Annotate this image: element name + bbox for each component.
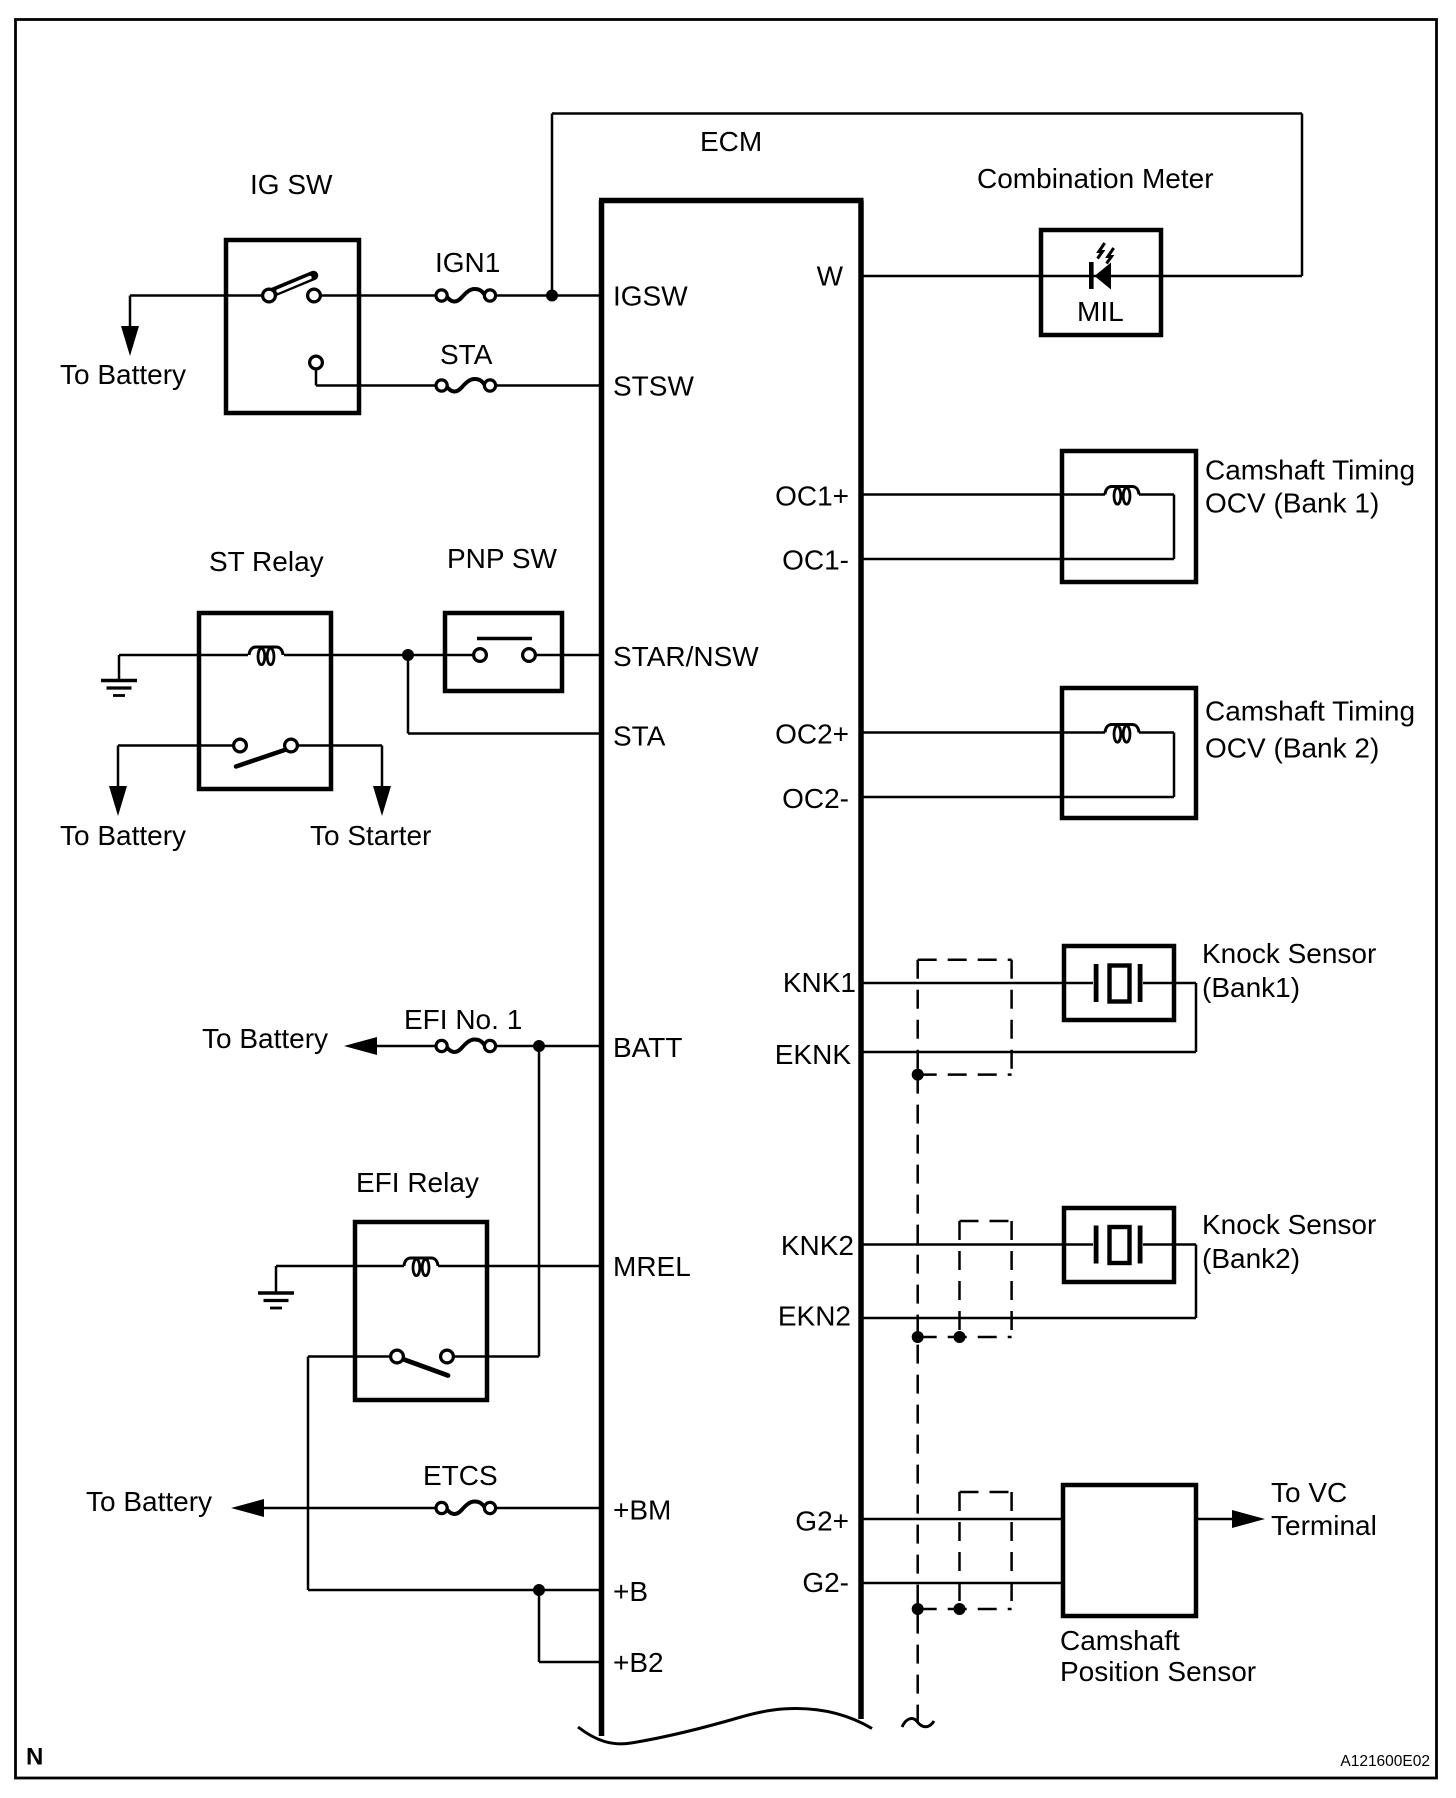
svg-text:IG SW: IG SW — [250, 169, 333, 200]
svg-text:OCV (Bank 1): OCV (Bank 1) — [1205, 488, 1379, 519]
svg-text:N: N — [26, 1744, 43, 1771]
svg-text:OC2+: OC2+ — [775, 719, 849, 750]
svg-text:STSW: STSW — [613, 371, 694, 402]
svg-text:ST Relay: ST Relay — [209, 546, 324, 577]
svg-text:EKNK: EKNK — [775, 1039, 852, 1070]
svg-text:IGSW: IGSW — [613, 281, 688, 312]
svg-text:(Bank1): (Bank1) — [1202, 972, 1300, 1003]
svg-text:Terminal: Terminal — [1271, 1510, 1377, 1541]
svg-text:EKN2: EKN2 — [778, 1301, 851, 1332]
svg-text:Camshaft: Camshaft — [1060, 1625, 1180, 1656]
svg-text:Camshaft Timing: Camshaft Timing — [1205, 455, 1415, 486]
svg-text:MIL: MIL — [1077, 296, 1124, 327]
svg-text:Knock Sensor: Knock Sensor — [1202, 938, 1376, 969]
svg-text:KNK2: KNK2 — [781, 1230, 854, 1261]
svg-text:(Bank2): (Bank2) — [1202, 1243, 1300, 1274]
svg-text:STA: STA — [440, 339, 493, 370]
svg-text:STAR/NSW: STAR/NSW — [613, 641, 759, 672]
svg-text:Camshaft Timing: Camshaft Timing — [1205, 696, 1415, 727]
svg-text:To Battery: To Battery — [60, 359, 186, 390]
svg-text:PNP SW: PNP SW — [447, 543, 558, 574]
svg-text:ETCS: ETCS — [423, 1460, 498, 1491]
svg-text:OC1-: OC1- — [782, 545, 849, 576]
svg-text:+B2: +B2 — [613, 1647, 664, 1678]
svg-text:To Battery: To Battery — [86, 1486, 212, 1517]
svg-text:OC2-: OC2- — [782, 783, 849, 814]
svg-text:EFI No. 1: EFI No. 1 — [404, 1004, 522, 1035]
svg-text:Knock Sensor: Knock Sensor — [1202, 1209, 1376, 1240]
svg-text:To Battery: To Battery — [202, 1023, 328, 1054]
svg-text:G2-: G2- — [802, 1567, 849, 1598]
svg-text:KNK1: KNK1 — [783, 967, 856, 998]
svg-text:IGN1: IGN1 — [435, 247, 500, 278]
svg-text:Combination Meter: Combination Meter — [977, 163, 1214, 194]
svg-text:To Battery: To Battery — [60, 820, 186, 851]
svg-text:MREL: MREL — [613, 1251, 691, 1282]
svg-text:STA: STA — [613, 721, 666, 752]
svg-text:+BM: +BM — [613, 1495, 671, 1526]
svg-text:To Starter: To Starter — [310, 820, 431, 851]
svg-text:+B: +B — [613, 1576, 648, 1607]
svg-text:OC1+: OC1+ — [775, 481, 849, 512]
svg-text:G2+: G2+ — [795, 1506, 849, 1537]
svg-text:Position Sensor: Position Sensor — [1060, 1656, 1256, 1687]
svg-text:A121600E02: A121600E02 — [1340, 1753, 1430, 1770]
svg-text:BATT: BATT — [613, 1032, 682, 1063]
svg-text:EFI Relay: EFI Relay — [356, 1167, 479, 1198]
svg-text:ECM: ECM — [700, 126, 762, 157]
svg-text:To VC: To VC — [1271, 1477, 1347, 1508]
svg-text:OCV (Bank 2): OCV (Bank 2) — [1205, 733, 1379, 764]
svg-text:W: W — [817, 261, 844, 292]
